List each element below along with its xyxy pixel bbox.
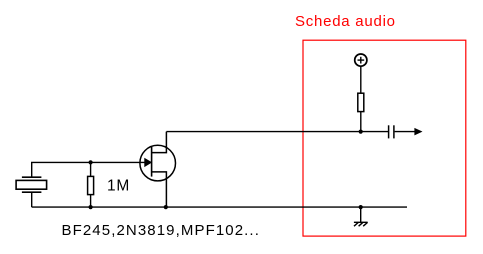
wire resistor R2 to drain rail — [360, 112, 362, 132]
transistor Q1 gate arrow — [145, 159, 151, 167]
output arrow — [415, 129, 421, 135]
ground rail wire — [32, 206, 407, 208]
drain rail wire — [166, 131, 388, 133]
svg-text:1M: 1M — [107, 178, 130, 195]
svg-text:BF245,2N3819,MPF102...: BF245,2N3819,MPF102... — [62, 222, 260, 239]
node drain junction — [359, 130, 363, 134]
resistor R1 1M — [88, 176, 94, 194]
wire node to ground symbol — [360, 207, 362, 222]
node gate junction — [89, 160, 93, 164]
supply symbol plus — [355, 54, 367, 66]
transistor Q1 gate bar — [151, 147, 153, 177]
node ground junction — [359, 205, 363, 209]
node R1 ground junction — [89, 205, 93, 209]
node source ground junction — [164, 205, 168, 209]
resistor R2 — [358, 93, 364, 111]
wire piezo top to gate rail — [32, 162, 146, 177]
wire capacitor C1 to output arrow — [395, 131, 416, 133]
wire supply to resistor R2 — [360, 66, 362, 93]
svg-text:Scheda audio: Scheda audio — [295, 13, 396, 30]
ground — [354, 222, 368, 226]
wire piezo bottom to ground rail — [31, 192, 33, 207]
transistor Q1 JFET body — [140, 145, 176, 181]
capacitor C1 — [389, 125, 394, 138]
transistor Q1 source lead — [152, 172, 167, 207]
piezo transducer X1 — [16, 177, 46, 192]
wire resistor R1 to ground rail — [90, 195, 92, 208]
audio card box — [303, 40, 466, 236]
transistor Q1 drain lead — [152, 132, 167, 153]
wire gate node to resistor R1 — [90, 162, 92, 176]
